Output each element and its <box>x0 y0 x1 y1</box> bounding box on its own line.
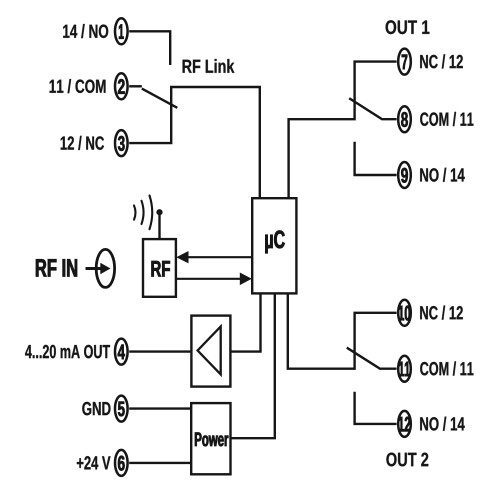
microcontroller uC block <box>252 198 296 293</box>
terminal 5 (GND) <box>82 396 127 422</box>
radio wave arc 3 <box>134 206 136 220</box>
terminal 10 (NC / 12) <box>398 300 463 326</box>
terminal 12 (NO / 14) <box>398 411 465 437</box>
wire terminal 5 to power block <box>129 407 191 409</box>
terminal 8 (COM / 11) <box>398 106 473 132</box>
wire OUT2 NO contact to terminal 12 <box>355 392 397 424</box>
arrow RF to uC <box>176 273 252 286</box>
wire terminal 1 to input relay NO contact <box>129 31 170 65</box>
antenna <box>156 209 162 239</box>
terminal 7 (NC / 12) <box>398 49 463 75</box>
RF transceiver block <box>143 239 176 297</box>
OUT1 relay changeover arm <box>349 98 396 119</box>
power supply block <box>191 403 230 474</box>
terminal 11 (COM / 11) <box>398 356 473 382</box>
terminal 3 (12 / NC) <box>61 130 128 156</box>
label RF Link <box>183 59 235 73</box>
wire terminal 6 to power block <box>129 462 191 464</box>
wire amplifier to uC bottom <box>230 293 260 351</box>
wire terminal 4 to amplifier <box>129 350 191 352</box>
wire terminal 2 to input relay arm pivot <box>129 85 142 87</box>
terminal 6 (+24 V) <box>77 450 128 476</box>
terminal 4 (4...20 mA OUT) <box>25 339 128 365</box>
OUT2 relay changeover arm <box>347 348 397 369</box>
RF IN arrow <box>86 263 111 275</box>
radio wave arc 1 <box>150 196 153 230</box>
terminal 1 (14 / NO) <box>63 18 127 44</box>
arrow uC to RF <box>176 251 252 263</box>
RF IN port ellipse <box>96 249 114 287</box>
input relay changeover arm <box>142 89 178 108</box>
terminal 2 (11 / COM) <box>50 73 128 99</box>
wire terminal 10 NC contact down to OUT2 node and across to uC bottom <box>288 293 397 368</box>
label RF IN <box>36 259 77 276</box>
label OUT 2 <box>386 453 428 467</box>
wire terminal 3 NC contact up to RF Link node and across to uC top <box>129 87 260 198</box>
output amplifier block <box>191 316 230 387</box>
wire power block to uC bottom <box>231 293 275 438</box>
terminal 9 (NO / 14) <box>398 162 465 188</box>
radio wave arc 2 <box>142 201 144 224</box>
wire terminal 7 NC contact down to OUT1 node and across to uC top <box>289 62 397 199</box>
wire OUT1 NO contact to terminal 9 <box>355 142 397 175</box>
label OUT 1 <box>386 20 430 34</box>
